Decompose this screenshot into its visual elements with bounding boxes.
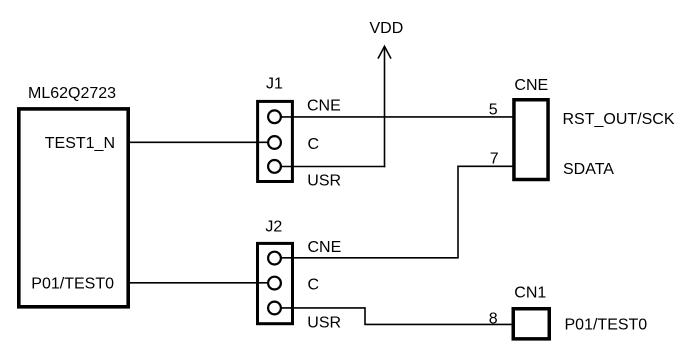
J2 pin circle USR xyxy=(268,302,281,315)
connector J1 body xyxy=(258,101,293,181)
svg-text:8: 8 xyxy=(489,311,498,328)
wire J1 USR to VDD line xyxy=(282,166,386,168)
wire J2 USR to CN1 pin 8 xyxy=(282,308,513,325)
svg-text:P01/TEST0: P01/TEST0 xyxy=(565,317,648,334)
svg-text:P01/TEST0: P01/TEST0 xyxy=(31,276,114,293)
svg-text:USR: USR xyxy=(307,173,341,190)
J2 pin circle C xyxy=(268,277,281,290)
IC U1 ML62Q2723 body xyxy=(19,109,128,307)
svg-text:CNE: CNE xyxy=(514,77,548,94)
svg-text:USR: USR xyxy=(307,315,341,332)
J1 pin circle C xyxy=(268,136,281,149)
svg-text:C: C xyxy=(308,136,320,153)
svg-text:VDD: VDD xyxy=(370,20,404,37)
svg-text:SDATA: SDATA xyxy=(563,161,614,178)
J1 pin circle USR xyxy=(268,160,281,173)
wire P01/TEST0 to J2 pin C xyxy=(130,282,268,284)
wire TEST1_N to J1 pin C xyxy=(130,141,268,143)
svg-text:TEST1_N: TEST1_N xyxy=(45,135,115,152)
svg-text:J2: J2 xyxy=(265,219,282,236)
svg-text:CN1: CN1 xyxy=(514,285,546,302)
J2 pin circle CNE xyxy=(268,252,281,265)
svg-text:C: C xyxy=(308,277,320,294)
svg-text:J1: J1 xyxy=(266,76,283,93)
svg-text:7: 7 xyxy=(490,151,499,168)
wire CNE pin 7 to J2 CNE xyxy=(282,166,514,257)
svg-text:RST_OUT/SCK: RST_OUT/SCK xyxy=(563,111,675,128)
connector J2 body xyxy=(258,243,293,323)
wire J1 CNE to CNE pin 5 xyxy=(282,116,514,118)
connector CN1 body xyxy=(513,309,549,339)
connector CNE body xyxy=(514,100,548,180)
J1 pin circle CNE xyxy=(268,110,281,123)
svg-text:ML62Q2723: ML62Q2723 xyxy=(28,85,116,102)
svg-text:CNE: CNE xyxy=(308,239,342,256)
power VDD arrow xyxy=(378,46,391,167)
svg-text:CNE: CNE xyxy=(307,98,341,115)
svg-text:5: 5 xyxy=(489,102,498,119)
